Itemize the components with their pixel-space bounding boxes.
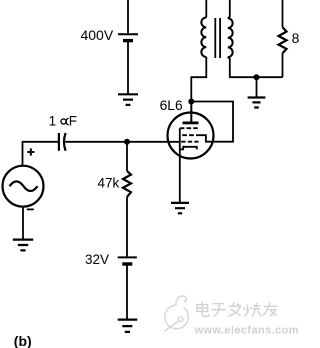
cathode bracket bbox=[180, 147, 197, 150]
AC source circle bbox=[3, 166, 44, 207]
wire 47k to battery 32V bbox=[126, 197, 128, 257]
plate bar bbox=[183, 122, 199, 125]
capacitor C 1uF right curved plate bbox=[64, 133, 66, 151]
svg-text:www.elecfans.com: www.elecfans.com bbox=[194, 325, 299, 337]
wire resistor 8 bottom bbox=[282, 53, 284, 77]
battery 400V short plate bbox=[123, 39, 133, 42]
plate lead bbox=[190, 102, 192, 123]
node grid/47k junction bbox=[124, 139, 130, 145]
wire junction to ground bbox=[256, 77, 258, 97]
transformer primary winding bbox=[201, 18, 206, 57]
wire B+ top to battery 400V bbox=[127, 0, 129, 33]
cathode lead bbox=[179, 128, 181, 202]
wire 47k top bbox=[126, 142, 128, 171]
wire grid input bbox=[65, 141, 180, 143]
wire secondary top bbox=[228, 0, 230, 18]
ground below source bbox=[13, 240, 33, 251]
label minus bbox=[27, 208, 34, 210]
tube 6L6 envelope bbox=[168, 113, 214, 159]
wire battery 400V to ground bbox=[127, 42, 129, 94]
svg-text:F: F bbox=[69, 114, 77, 129]
label plus bbox=[27, 148, 34, 155]
wire 32V to ground bbox=[126, 266, 128, 319]
sine wave bbox=[10, 181, 38, 191]
wire plate node to screen grid bbox=[191, 102, 233, 142]
transformer core bbox=[215, 18, 220, 58]
battery 400V long plate bbox=[118, 33, 138, 35]
svg-text:47k: 47k bbox=[98, 175, 120, 190]
svg-text:6L6: 6L6 bbox=[160, 98, 183, 113]
ground below cathode bbox=[171, 203, 189, 213]
capacitor C 1uF left plate bbox=[58, 133, 60, 151]
battery 32V long plate bbox=[118, 256, 137, 258]
svg-text:8: 8 bbox=[292, 30, 300, 46]
watermark logo bbox=[165, 296, 189, 331]
grid 3 suppressor dashed bbox=[180, 127, 199, 129]
wire source to ground bbox=[22, 207, 24, 239]
battery 32V short plate bbox=[122, 262, 132, 265]
resistor 8 (speaker load) bbox=[279, 27, 287, 53]
wire source to capacitor bbox=[23, 142, 59, 166]
svg-text:(b): (b) bbox=[14, 333, 32, 348]
wire primary bottom to plate node bbox=[191, 57, 206, 102]
node plate junction bbox=[188, 99, 194, 105]
resistor 47k bbox=[123, 171, 131, 197]
grid 1 control dashed bbox=[181, 141, 198, 143]
wire primary top bbox=[205, 0, 207, 18]
watermark text dian zi fa shao you bbox=[197, 301, 277, 316]
ground below secondary bbox=[248, 98, 266, 108]
ground below 400V battery bbox=[118, 94, 138, 105]
grid 2 screen dashed bbox=[182, 134, 198, 136]
glyph proportional-to (mu) bbox=[61, 119, 66, 124]
svg-text:32V: 32V bbox=[85, 252, 109, 267]
svg-text:400V: 400V bbox=[80, 27, 113, 43]
node secondary/ground junction bbox=[254, 74, 260, 80]
ground below 32V bbox=[118, 320, 138, 332]
wire secondary bottom to output node bbox=[228, 57, 283, 77]
wire speaker resistor top bbox=[282, 0, 284, 27]
transformer secondary winding bbox=[228, 18, 233, 57]
svg-text:1: 1 bbox=[49, 113, 57, 128]
